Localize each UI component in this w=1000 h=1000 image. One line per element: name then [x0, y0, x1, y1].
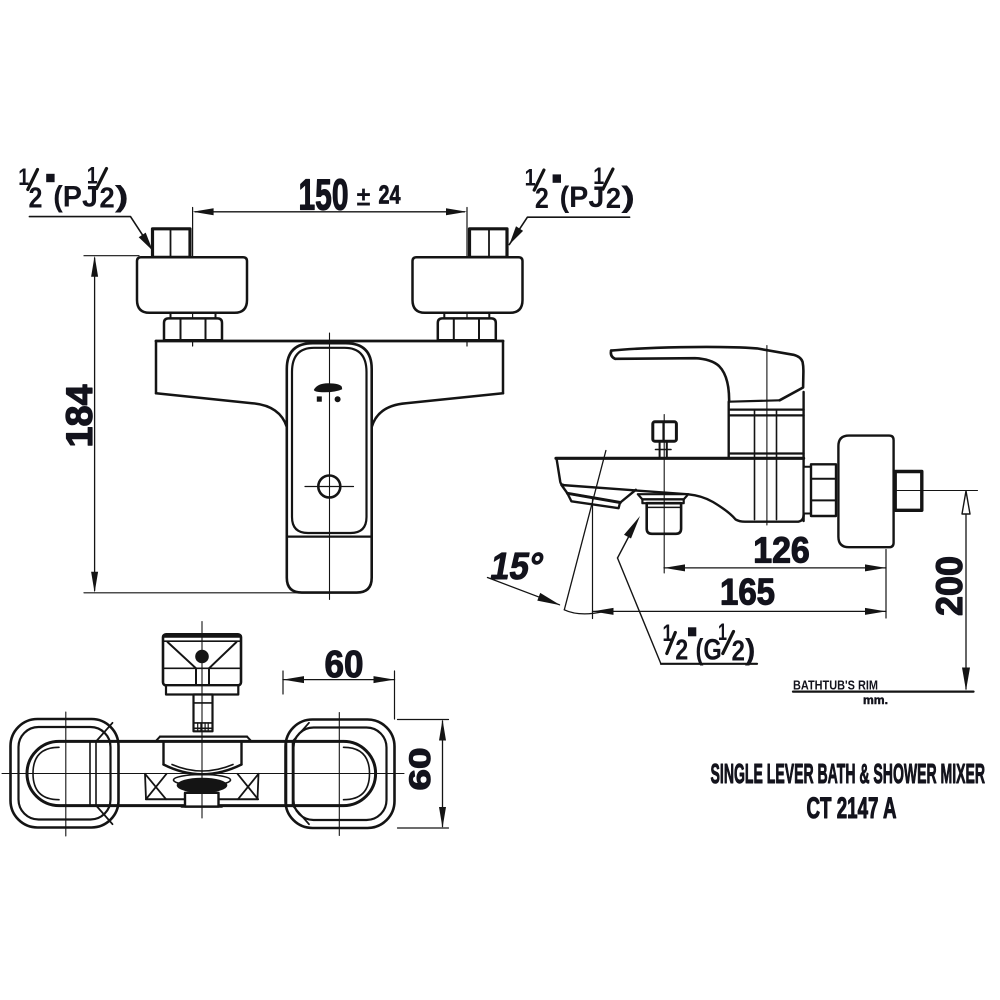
svg-text:2: 2	[29, 182, 43, 214]
svg-text:15°: 15°	[487, 545, 547, 588]
temperature button circle	[318, 476, 340, 498]
side view lever handle : rear bottom edge	[729, 400, 779, 401]
lever arm sections	[166, 685, 238, 694]
spout fan bottom edge	[146, 798, 185, 800]
svg-text:CT 2147 A: CT 2147 A	[807, 792, 897, 825]
svg-text:2: 2	[99, 182, 114, 214]
mixer body bar : left edge	[155, 341, 158, 393]
svg-text:2: 2	[675, 635, 688, 667]
label 15 deg : leader line and arrow	[488, 578, 560, 605]
connector ring	[804, 467, 811, 514]
label 1/2"(PJ1/2) left : leader line and arrow	[29, 217, 152, 251]
svg-text:200: 200	[929, 556, 970, 616]
bathtub rim reference line	[793, 690, 974, 692]
right flange inner square	[294, 728, 387, 821]
spout fan left	[145, 774, 146, 799]
wall thread pipe	[895, 472, 922, 511]
dimension 184 : bottom extension line	[84, 592, 331, 594]
left wall union : hex nut	[164, 318, 222, 340]
wall flange	[838, 436, 893, 548]
aerator housing	[185, 793, 219, 807]
spout : underside edge	[562, 485, 804, 522]
right wall union : neck	[443, 313, 445, 319]
dimension 150 +-24 : dimension line	[195, 211, 465, 213]
svg-text:mm.: mm.	[863, 693, 888, 707]
escutcheon cylinder bottom view	[162, 742, 164, 765]
right wall union : thread pipe 1/2	[470, 229, 508, 258]
svg-text:2: 2	[732, 635, 746, 667]
svg-text:60: 60	[404, 748, 437, 791]
svg-text:): )	[745, 634, 756, 667]
label 1/2"(G1/2) : leader line and arrow	[618, 558, 662, 664]
left wall union : thread pipe 1/2	[153, 229, 191, 258]
spout mouth rim	[174, 775, 231, 786]
svg-text:150: 150	[299, 171, 349, 220]
svg-text:±: ±	[357, 182, 371, 212]
escutcheon : inner panel	[292, 348, 367, 533]
capsule inner end arcs	[33, 747, 59, 799]
dimension 200 : dimension line	[965, 492, 967, 689]
diverter knob stem	[659, 441, 661, 458]
mixer body bar : top edge	[156, 340, 503, 343]
side view lever handle : outline	[611, 347, 803, 400]
dimension 184 : top extension line	[84, 255, 139, 257]
mixer body bar : bottom right edge	[372, 393, 503, 427]
cartridge cap band	[729, 409, 804, 411]
bottom view body capsule	[27, 741, 376, 805]
body centerline	[766, 346, 768, 526]
dimension 184 : dimension line	[94, 258, 96, 591]
left union hidden edges	[89, 742, 91, 806]
svg-text:): )	[621, 181, 635, 214]
dimension 150 : right extension line	[466, 208, 468, 347]
right wall union : hex nut	[438, 318, 496, 340]
svg-text:1: 1	[593, 163, 604, 190]
brand logo mark	[314, 383, 342, 392]
shower hose outlet fitting G1/2 : flange	[638, 494, 689, 499]
dimension 150 : left extension line	[192, 208, 194, 347]
svg-text:24: 24	[379, 180, 401, 210]
wall hex nut	[811, 464, 836, 516]
dimension 126 : right extension line	[885, 550, 887, 619]
right union hidden edges	[286, 742, 288, 806]
svg-text:60: 60	[325, 644, 364, 686]
mixer body bar : right edge	[502, 341, 505, 393]
svg-text:1: 1	[87, 163, 98, 190]
wall thread centerline	[894, 490, 978, 492]
svg-text:2: 2	[535, 183, 549, 215]
svg-text:BATHTUB'S RIM: BATHTUB'S RIM	[793, 677, 878, 692]
left flange inner square	[19, 727, 111, 820]
svg-text:165: 165	[720, 572, 775, 613]
dimension 165 : dimension line	[593, 610, 887, 612]
bottom view centerlines	[201, 622, 203, 819]
left wall union : neck	[170, 313, 172, 319]
mixer body cylinder : edges	[728, 402, 730, 458]
base plate	[160, 735, 247, 737]
left wall union : body block	[137, 257, 247, 313]
svg-text:184: 184	[59, 384, 100, 447]
outlet centerline	[663, 415, 665, 574]
svg-text:126: 126	[753, 529, 810, 570]
label 1/2"(PJ1/2) right : leader line and arrow	[509, 217, 629, 244]
15 degree tilted reference line	[564, 451, 606, 610]
shower hose outlet fitting G1/2 : cylinder	[647, 503, 681, 534]
spout fan right	[258, 774, 259, 799]
svg-text:1: 1	[718, 619, 727, 646]
svg-text:): )	[115, 181, 129, 214]
right flange outer square	[286, 720, 395, 829]
dimension 126 : dimension line	[664, 567, 886, 569]
mixer body bar : bottom left edge	[156, 393, 287, 427]
lever top seam	[287, 535, 372, 537]
svg-text:SINGLE LEVER BATH & SHOWER MIX: SINGLE LEVER BATH & SHOWER MIXER	[711, 758, 986, 789]
lever knob top view : outer box	[163, 634, 241, 685]
svg-text:2: 2	[606, 183, 621, 215]
lever knob top view : funnel lines	[168, 642, 197, 668]
spout : left face	[557, 458, 564, 485]
dimension 60 horizontal : dimension line	[283, 679, 395, 681]
dimension 165 : left extension line	[592, 499, 594, 619]
escutcheon and lever column : outer silhouette	[287, 343, 372, 592]
right wall union : body block	[413, 257, 523, 313]
column centerline	[329, 333, 331, 600]
lever knob top view : dot	[195, 650, 209, 664]
diverter knob	[653, 422, 677, 441]
dimension 60 vertical : dimension line	[442, 721, 444, 827]
spout : top edge	[556, 457, 804, 460]
spout : outlet lip (15 deg)	[562, 485, 636, 503]
spout outlet (black)	[177, 778, 228, 793]
left flange outer square	[11, 719, 119, 828]
